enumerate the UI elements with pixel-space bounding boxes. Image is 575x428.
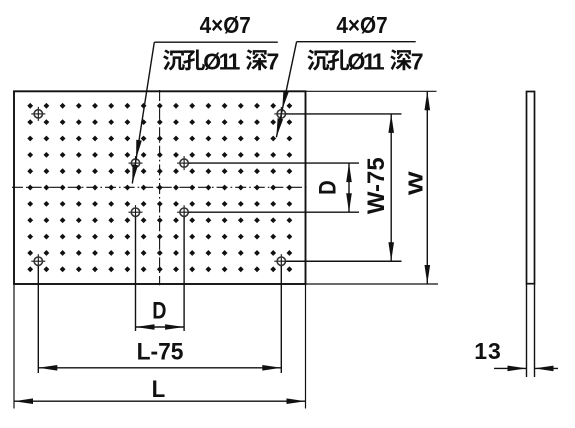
svg-text:D: D — [152, 297, 166, 324]
leader line 1 (left note to hole C) — [132, 42, 154, 183]
dimension L — [14, 398, 306, 404]
dimension W-75 — [388, 114, 394, 261]
extension line plate left edge down (dimension L) — [13, 284, 15, 409]
leader line 2 (right note to hole B) — [276, 42, 296, 138]
extension line plate top edge right (dimension W) — [306, 90, 437, 92]
dimension L-75 — [38, 365, 281, 371]
label L-75 — [137, 338, 184, 365]
note 2 text line 2: 沉孔Ø11 深7 — [307, 49, 423, 75]
label D (bottom) — [152, 297, 166, 324]
dimension W — [425, 91, 431, 284]
note 1 text line 2: 沉孔Ø11 深7 — [163, 49, 279, 75]
counterbore hole G (bottom-left) — [31, 254, 45, 268]
svg-text:4×Ø7: 4×Ø7 — [336, 12, 387, 38]
extension line plate bottom edge right (dimension W) — [306, 283, 439, 285]
counterbore hole E (mid-lower-left) — [129, 205, 143, 219]
counterbore hole F (mid-lower-right) — [177, 205, 191, 219]
extension line from hole D right (dimension D right, top) — [189, 162, 359, 164]
svg-text:7: 7 — [411, 49, 424, 75]
note 1 text: 4×Ø7 — [200, 12, 251, 38]
extension line from hole F right (dimension D right, bottom) — [189, 211, 359, 213]
leader note 2 underline — [297, 41, 416, 43]
dimension 13 (thickness) — [494, 366, 558, 372]
extension line from hole F down (dimension D bottom, right) — [183, 217, 185, 331]
extension line side view left edge down (dimension 13) — [526, 284, 528, 377]
counterbore hole H (bottom-right) — [274, 254, 288, 268]
counterbore hole D (mid-upper-right) — [177, 156, 191, 170]
extension line side view right edge down (dimension 13) — [534, 284, 536, 377]
svg-text:4×Ø7: 4×Ø7 — [200, 12, 251, 38]
leader note 1 underline — [154, 41, 277, 43]
mounting hole grid (17 x 11 small holes) — [27, 103, 292, 272]
counterbore hole C (mid-upper-left) — [129, 156, 143, 170]
svg-text:13: 13 — [474, 338, 502, 364]
extension line from hole G down (dimension L-75, left) — [37, 266, 39, 373]
svg-text:Ø11: Ø11 — [348, 49, 385, 75]
svg-text:W: W — [404, 171, 427, 195]
svg-text:L: L — [152, 375, 166, 402]
svg-text:Ø11: Ø11 — [203, 49, 240, 75]
svg-text:7: 7 — [267, 49, 280, 75]
dimension D (bottom, between holes E and F) — [136, 324, 185, 330]
extension line plate right edge down (dimension L) — [305, 284, 307, 409]
extension line from hole E down (dimension D bottom, left) — [135, 217, 137, 331]
label W (rotated) — [404, 171, 427, 195]
dimension D (right, between holes D and F) — [346, 163, 352, 212]
vertical centerline — [159, 90, 161, 285]
counterbore hole B (top-right) — [274, 107, 288, 121]
counterbore hole A (top-left) — [31, 107, 45, 121]
svg-text:W-75: W-75 — [363, 157, 390, 214]
label W-75 (rotated) — [363, 157, 390, 214]
side view outline (plate thickness) — [527, 92, 535, 284]
extension line from hole H right (dimension W-75, bottom) — [286, 260, 402, 262]
extension line from hole H down (dimension L-75, right) — [280, 266, 282, 373]
plate front view outline — [14, 91, 306, 284]
svg-text:D: D — [314, 180, 341, 195]
extension line from hole B right (dimension W-75, top) — [286, 113, 402, 115]
horizontal centerline — [12, 186, 307, 188]
note 2 text: 4×Ø7 — [336, 12, 387, 38]
label L — [152, 375, 166, 402]
label D (right, rotated) — [314, 180, 341, 195]
svg-text:L-75: L-75 — [137, 338, 184, 365]
